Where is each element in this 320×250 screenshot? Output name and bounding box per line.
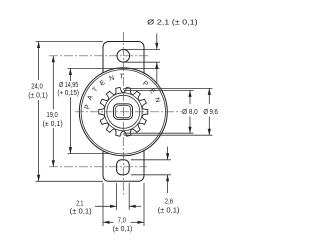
top mounting hole [117, 50, 130, 63]
svg-text:19,0: 19,0 [47, 110, 58, 119]
svg-text:24,0: 24,0 [31, 81, 43, 90]
dim 8.0 extension lines [124, 89, 194, 91]
horizontal centerline body [75, 111, 182, 113]
dim 9.6 extension lines [124, 87, 213, 89]
dim 9.6 line and arrows [208, 88, 210, 104]
dim 2.6 line and arrows [167, 147, 169, 160]
svg-text:(+ 0,15): (+ 0,15) [57, 88, 79, 97]
dim 8.0 line and arrows [189, 90, 191, 104]
dim 2.1 slot extension lines [116, 183, 118, 210]
center slot outer [114, 104, 133, 120]
svg-text:2,6: 2,6 [165, 197, 173, 206]
mounting flange [103, 42, 144, 182]
dim 2.1 top tangent extension lines [123, 48, 160, 50]
dim 2.6 extension lines [131, 159, 171, 161]
bottom mounting slot [117, 160, 130, 175]
dim 24.0 extension lines [36, 41, 104, 43]
bottom slot centerline [49, 166, 147, 168]
dim 14.95 extension lines [68, 68, 160, 70]
dim 7.0 extension lines [102, 183, 104, 226]
svg-text:Ø 8,0: Ø 8,0 [182, 107, 198, 116]
svg-text:(± 0,1): (± 0,1) [28, 90, 48, 99]
gear rotor teeth [99, 87, 148, 136]
svg-text:Ø 9,6: Ø 9,6 [203, 107, 218, 116]
dim 19.0 line and arrows [52, 56, 54, 110]
gear hub circle [107, 95, 140, 128]
svg-text:(± 0,1): (± 0,1) [70, 206, 92, 215]
svg-text:(± 0,1): (± 0,1) [43, 119, 63, 128]
vertical centerline [122, 32, 124, 195]
top hole centerline [49, 55, 150, 57]
svg-text:(± 0,1): (± 0,1) [158, 205, 180, 214]
dim 24.0 line and arrows [38, 42, 40, 81]
center slot inner chamfer [115, 106, 130, 118]
dim 2.1 top line and arrows [156, 33, 158, 49]
gear root circle [104, 93, 142, 131]
body outer circle [79, 68, 167, 156]
svg-text:Ø 2,1 (± 0,1): Ø 2,1 (± 0,1) [147, 18, 198, 27]
body inner rim circle [81, 70, 165, 154]
dim 2.1 slot line and arrows [95, 205, 117, 207]
dim 14.95 line and arrows [69, 69, 71, 82]
svg-text:(± 0,1): (± 0,1) [113, 224, 133, 233]
dim 7.0 line and arrows [103, 221, 114, 223]
